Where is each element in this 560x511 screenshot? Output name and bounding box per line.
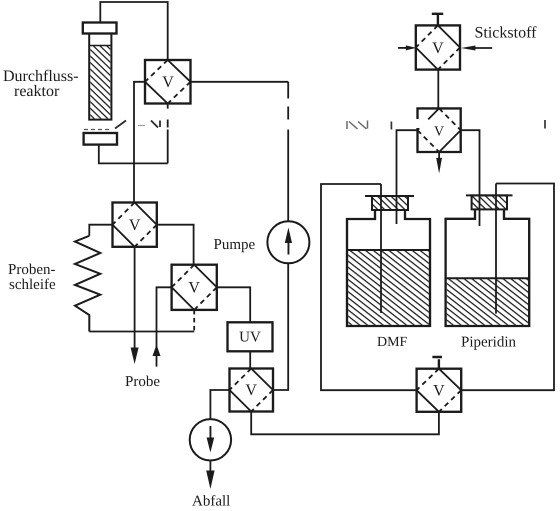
Piperidin liquid surface [446,277,530,279]
wire VBR-left to reservoir loop left [321,184,417,390]
svg-text:Probe: Probe [125,374,160,390]
wire V2-bottom Probe out [134,247,136,350]
svg-text:V: V [188,280,200,297]
artifact dots [138,125,145,127]
valve VN2 square (Stickstoff) [416,25,460,69]
valve VBR vent T [432,357,442,369]
valve V2R square (gap from scan band on left edge) [418,108,461,152]
valve V3 solid passages [172,265,217,310]
svg-text:V: V [129,217,141,234]
waste pump circle P2 [190,419,231,460]
wire sample-in to V3-left [157,287,172,366]
wire VN2-bottom to V2R-top [437,70,439,109]
valve V2 dashed passages [113,203,157,247]
pump circle P1 [267,221,309,263]
reactor column packing top line [89,45,111,47]
pump P2 down arrow [207,426,215,453]
valve VBR solid passages [417,369,462,412]
valve VBR dashed passages [417,369,462,412]
arrow Probe down [131,348,139,365]
reactor column bottom cap [84,133,117,145]
reactor column body [89,34,111,120]
valve V4 dashed passages [230,369,274,412]
wire V1-left to V2-top [134,82,145,203]
wire V4-bottom to VBR-bottom [251,412,439,435]
artifact backslash-bar near column [151,121,160,128]
artifact hatched mark ZN [347,121,368,130]
valve V2 solid passages [113,203,157,247]
Stickstoff right inlet arrow [475,47,493,49]
artifact column wall remnants [84,129,111,131]
DMF liquid [348,250,429,325]
UV detector box [228,322,273,351]
valve V3 square [172,265,217,310]
valve V1 square [145,60,191,104]
svg-text:V: V [433,383,445,400]
valve V1 dashed passages [145,60,191,104]
svg-text:Proben-: Proben- [8,262,56,278]
svg-text:Abfall: Abfall [192,494,230,510]
svg-text:DMF: DMF [377,335,408,350]
pump P1 up arrow [285,228,292,255]
valve V4 square [230,369,274,412]
arrow Probe up [153,345,161,357]
valve VN2 dashed passages [416,25,460,69]
svg-text:V: V [162,74,174,91]
valve VN2 solid passages [416,25,460,69]
DMF bottle stopper [372,196,408,210]
valve V2R solid passages (mirrored) [418,108,461,152]
svg-text:UV: UV [239,330,261,346]
wire V3-right to UV [217,287,250,322]
Piperidin dip tube [495,184,497,314]
svg-text:Pumpe: Pumpe [214,237,256,253]
wire column-bottom to junction [99,145,168,164]
wire V2R-right to Piperidin headspace [461,130,480,226]
Piperidin bottle stopper [472,195,507,209]
Stickstoff left inlet arrow [398,47,407,49]
valve V4 solid passages [230,369,274,412]
reactor column top cap [83,23,117,34]
wire UV to V4 [249,351,251,368]
wire P2 to Abfall [209,461,211,474]
wire P1-bottom to V4-right [273,263,288,390]
valve VBR square [417,369,462,412]
artifact tick left of V2R [390,122,392,130]
artifact slash near column [115,121,126,129]
wire V2-left to sample loop [89,225,112,236]
reactor column packing hatch [90,46,110,119]
scan artifact band marks [84,120,545,130]
wire column-top riser [100,2,167,60]
wire V2R-left to DMF headspace [397,130,418,224]
DMF bottle stopper top line [365,195,414,197]
wire VBR-right to reservoir loop right [461,184,554,391]
wire V1-bottom to junction (with scan gaps) [167,104,169,164]
svg-text:reaktor: reaktor [14,83,60,100]
valve V1 solid passages [145,60,191,104]
svg-text:Piperidin: Piperidin [461,335,516,351]
wire V3-bottom dashed [193,310,195,332]
valve V2R dashed passages (mirrored) [418,108,461,152]
Piperidin bottle stopper top line [466,194,513,196]
Piperidin liquid [447,278,528,325]
DMF liquid surface [347,249,430,251]
svg-text:Stickstoff: Stickstoff [475,25,538,42]
sample loop zigzag [75,236,100,332]
wire V4-left to waste pump [210,390,229,419]
valve V2R bottom arrow [438,152,440,159]
artifact tick right margin [544,120,546,129]
arrow Abfall down [206,471,214,490]
svg-text:V: V [434,125,444,140]
valve V3 dashed passages [172,265,217,310]
DMF bottle body [347,210,430,326]
valve VN2 vent T [432,14,443,26]
svg-text:V: V [432,40,444,57]
wire V1-right to pump riser (with scan gaps) [191,82,289,221]
svg-text:V: V [245,382,257,399]
valve V2 square [113,203,157,247]
Piperidin bottle body [446,209,530,326]
wire V2-right to V3-top [157,225,194,265]
wire loop-bottom horizontal [89,331,194,333]
svg-text:schleife: schleife [9,277,56,293]
DMF dip tube [380,184,382,313]
